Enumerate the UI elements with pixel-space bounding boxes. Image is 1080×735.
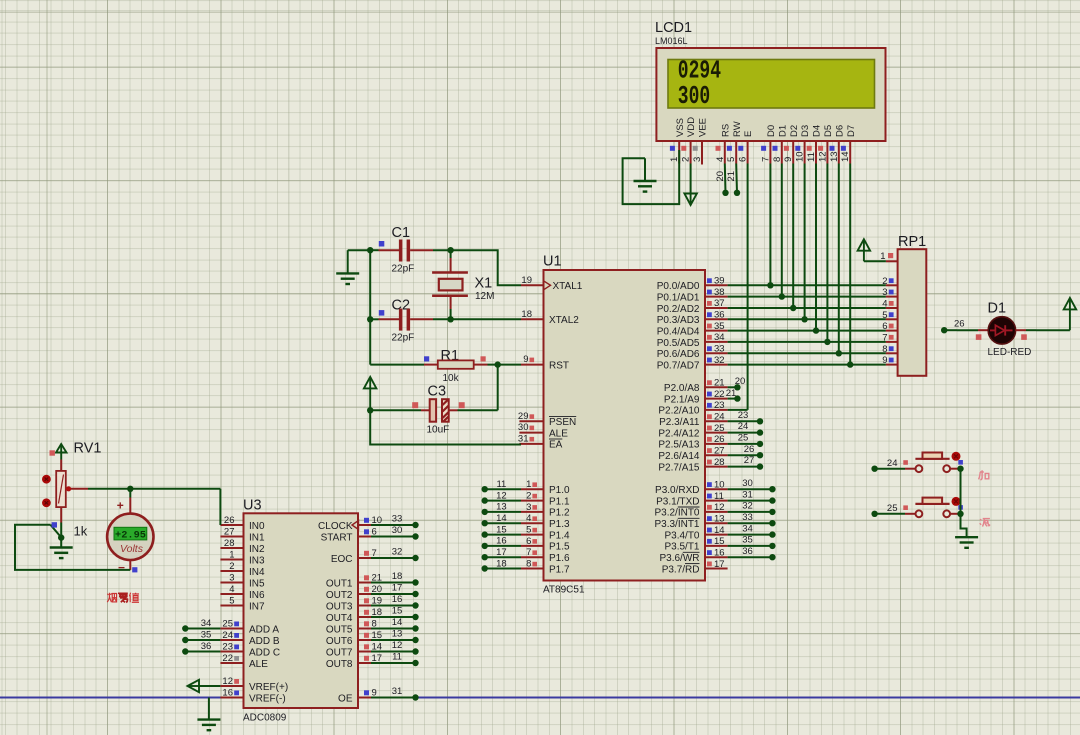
svg-text:22: 22: [714, 389, 725, 400]
svg-text:3: 3: [882, 287, 887, 298]
svg-text:U1: U1: [543, 254, 562, 270]
U3 pin 16 VREF(-): [220, 697, 243, 699]
U3 pin 7 EOC wire to node 32: [358, 557, 371, 559]
svg-text:15: 15: [714, 536, 725, 547]
U1 pin 15 P3.5 stub: [705, 545, 728, 547]
wire to voltmeter plus: [129, 489, 131, 498]
U1 pin 21 P2.0/A8 stub: [705, 386, 728, 388]
U1 pin 24 P2.3/A11 stub: [705, 420, 728, 422]
svg-text:X1: X1: [475, 275, 493, 291]
pot bottom terminal and ground: [60, 507, 62, 522]
svg-text:18: 18: [392, 571, 403, 582]
svg-text:ADD C: ADD C: [249, 647, 280, 658]
svg-text:28: 28: [714, 457, 725, 468]
label jian (subtract) chinese: [980, 519, 990, 527]
ADC U3 ADC0809 body: [244, 513, 359, 708]
wire ADD A to node 34: [185, 628, 220, 630]
svg-text:14: 14: [840, 151, 851, 162]
wire P2.0 to node 20: [728, 386, 738, 388]
svg-text:34: 34: [714, 332, 725, 343]
svg-text:EOC: EOC: [331, 554, 353, 565]
wire pot bottom loop to voltmeter minus: [15, 525, 130, 570]
svg-text:12: 12: [222, 676, 233, 687]
ground net wire (blue) full width: [0, 697, 1080, 699]
svg-text:22: 22: [222, 653, 233, 664]
svg-text:D7: D7: [846, 125, 857, 137]
svg-text:26: 26: [744, 444, 755, 455]
LCD VSS wire to ground: [623, 150, 680, 204]
svg-text:11: 11: [496, 479, 506, 490]
U3 pin 9 OE wire to node 31: [358, 697, 371, 699]
svg-text:D1: D1: [777, 125, 788, 137]
svg-text:RW: RW: [732, 121, 743, 137]
svg-text:P1.0: P1.0: [549, 485, 570, 496]
svg-text:C3: C3: [428, 384, 447, 400]
svg-text:35: 35: [742, 535, 753, 546]
svg-text:22pF: 22pF: [392, 333, 415, 344]
svg-text:D6: D6: [834, 125, 845, 137]
svg-text:21: 21: [714, 378, 725, 389]
svg-text:13: 13: [392, 629, 403, 640]
crystal X1: [450, 250, 452, 258]
svg-text:25: 25: [222, 619, 233, 630]
svg-text:1: 1: [229, 550, 234, 561]
svg-text:LED-RED: LED-RED: [988, 347, 1032, 358]
svg-text:IN6: IN6: [249, 590, 265, 601]
U1 pin 9 RST stub: [521, 364, 544, 366]
U3 pin 25 ADD A: [220, 628, 243, 630]
svg-text:16: 16: [496, 536, 507, 547]
U3 pin 20 OUT2 wire to node 17: [358, 593, 371, 595]
wire D1 to VCC arrow: [1016, 329, 1026, 331]
svg-text:IN2: IN2: [249, 544, 265, 555]
wire P2.2 to LCD E: [728, 409, 748, 411]
wire crystal top to XTAL1: [447, 247, 453, 253]
svg-text:11: 11: [714, 491, 724, 502]
svg-text:ADD A: ADD A: [249, 624, 279, 635]
svg-text:30: 30: [742, 478, 753, 489]
svg-text:15: 15: [496, 524, 507, 535]
svg-text:VREF(-): VREF(-): [249, 693, 286, 704]
svg-text:P3.5/T1: P3.5/T1: [664, 542, 699, 553]
U1 pin 12 P3.2 stub: [705, 511, 728, 513]
svg-text:IN4: IN4: [249, 567, 265, 578]
svg-text:START: START: [321, 532, 353, 543]
svg-text:P1.1: P1.1: [549, 496, 570, 507]
svg-text:23: 23: [714, 400, 725, 411]
svg-text:3: 3: [229, 573, 234, 584]
svg-text:4: 4: [526, 513, 531, 524]
svg-text:17: 17: [392, 583, 403, 594]
svg-text:ALE: ALE: [249, 659, 268, 670]
svg-text:18: 18: [496, 558, 507, 569]
voltmeter: [107, 514, 153, 560]
svg-text:XTAL1: XTAL1: [553, 281, 583, 292]
svg-text:PSEN: PSEN: [549, 417, 576, 428]
U1 pin 38 P0.1/AD1 stub: [705, 296, 728, 298]
U1 pin 33 P0.6/AD6 stub: [705, 352, 728, 354]
LCD pin stubs with numbers: [678, 141, 680, 164]
svg-text:39: 39: [714, 276, 725, 287]
svg-text:4: 4: [882, 299, 887, 310]
svg-text:VEE: VEE: [698, 118, 709, 137]
svg-text:26: 26: [954, 319, 965, 330]
svg-text:P1.2: P1.2: [549, 508, 570, 519]
svg-text:ADC0809: ADC0809: [243, 713, 287, 724]
svg-text:36: 36: [201, 641, 212, 652]
svg-text:12: 12: [496, 490, 507, 501]
svg-text:28: 28: [224, 538, 235, 549]
U1 pin 3 P1.2 stub and wire to node 13: [485, 511, 521, 513]
U3 pin 24 ADD B: [220, 639, 243, 641]
svg-text:IN3: IN3: [249, 555, 265, 566]
svg-text:+2.95: +2.95: [115, 529, 146, 541]
node wire vertical C1/C2/R1 left rail: [369, 250, 371, 364]
svg-text:8: 8: [882, 344, 887, 355]
svg-text:21: 21: [726, 171, 737, 182]
svg-text:P3.2/INT0: P3.2/INT0: [654, 508, 699, 519]
svg-text:33: 33: [714, 344, 725, 355]
svg-text:29: 29: [518, 411, 529, 422]
svg-text:P0.6/AD6: P0.6/AD6: [657, 349, 700, 360]
svg-text:30: 30: [392, 525, 403, 536]
svg-text:P0.2/AD2: P0.2/AD2: [657, 304, 700, 315]
svg-text:VSS: VSS: [675, 118, 686, 137]
svg-text:AT89C51: AT89C51: [543, 585, 585, 596]
svg-text:1k: 1k: [74, 524, 88, 539]
wires P2.3-P2.7 to nodes 23-27: [728, 420, 760, 422]
U1 pin 37 P0.2/AD2 stub: [705, 307, 728, 309]
svg-text:5: 5: [726, 157, 737, 162]
svg-text:VREF(+): VREF(+): [249, 682, 288, 693]
svg-text:17: 17: [714, 559, 725, 570]
U3 pin 8 OUT5 wire to node 14: [358, 628, 371, 630]
P0 bus wires from U1 to RP1: [728, 284, 886, 286]
U1 pin 29 PSEN stub: [519, 420, 543, 422]
svg-text:RP1: RP1: [898, 234, 926, 250]
svg-text:P3.6/WR: P3.6/WR: [659, 553, 699, 564]
svg-text:D3: D3: [800, 125, 811, 137]
svg-text:RV1: RV1: [74, 441, 102, 457]
U3 pin 21 OUT1 wire to node 18: [358, 582, 371, 584]
U1 pin 11 P3.1 stub: [705, 500, 728, 502]
svg-text:34: 34: [201, 618, 212, 629]
svg-text:EA: EA: [549, 440, 563, 451]
ground below U3: [208, 698, 210, 720]
microcontroller U1 AT89C51 body: [544, 270, 706, 581]
svg-text:20: 20: [735, 376, 746, 387]
wire RST node down to C3: [497, 365, 499, 411]
svg-text:33: 33: [742, 512, 753, 523]
svg-text:IN7: IN7: [249, 601, 265, 612]
svg-text:LCD1: LCD1: [655, 20, 692, 36]
svg-text:18: 18: [521, 309, 532, 320]
LCD VDD wire to power-down arrow: [690, 164, 692, 194]
svg-text:9: 9: [523, 354, 528, 365]
svg-text:27: 27: [714, 445, 725, 456]
svg-text:P2.7/A15: P2.7/A15: [658, 462, 700, 473]
svg-text:+: +: [117, 499, 124, 513]
svg-text:10k: 10k: [443, 373, 460, 384]
svg-text:35: 35: [201, 629, 212, 640]
svg-text:2: 2: [526, 491, 531, 502]
svg-text:33: 33: [392, 514, 403, 525]
svg-text:P1.6: P1.6: [549, 553, 570, 564]
svg-text:P3.4/T0: P3.4/T0: [664, 530, 699, 541]
svg-text:13: 13: [496, 502, 507, 513]
svg-text:D1: D1: [988, 301, 1007, 317]
svg-text:P2.4/A12: P2.4/A12: [658, 428, 700, 439]
U1 pin 5 P1.4 stub and wire to node 15: [485, 534, 521, 536]
LCD E wire down to P2.2: [747, 164, 749, 410]
LCD LM016L body: [656, 48, 885, 141]
svg-text:P3.7/RD: P3.7/RD: [662, 564, 700, 575]
svg-text:RS: RS: [720, 124, 731, 137]
svg-text:22pF: 22pF: [392, 264, 415, 275]
svg-text:P0.1/AD1: P0.1/AD1: [657, 292, 700, 303]
svg-text:35: 35: [714, 321, 725, 332]
svg-text:37: 37: [714, 298, 725, 309]
U1 pin 25 P2.4/A12 stub: [705, 432, 728, 434]
svg-text:D4: D4: [812, 125, 823, 137]
svg-text:CLOCK: CLOCK: [318, 521, 353, 532]
U1 pin 14 P3.4 stub: [705, 534, 728, 536]
svg-text:P3.3/INT1: P3.3/INT1: [654, 519, 699, 530]
svg-text:U3: U3: [243, 498, 262, 514]
svg-text:P0.4/AD4: P0.4/AD4: [657, 326, 700, 337]
U1 pin 2 P1.1 stub and wire to node 12: [485, 500, 521, 502]
U1 pin 32 P0.7/AD7 stub: [705, 364, 728, 366]
LCD RW wire to node 21: [735, 164, 738, 193]
svg-text:OUT7: OUT7: [326, 647, 353, 658]
svg-text:6: 6: [738, 157, 749, 162]
U1 pin 18 XTAL2 stub: [521, 318, 544, 320]
svg-text:27: 27: [224, 527, 235, 538]
svg-text:32: 32: [392, 547, 403, 558]
U1 pin 30 ALE stub: [519, 432, 543, 434]
svg-text:23: 23: [738, 410, 749, 421]
U1 pin 16 P3.6 stub: [705, 556, 728, 558]
svg-text:P2.1/A9: P2.1/A9: [664, 394, 700, 405]
svg-text:16: 16: [392, 594, 403, 605]
power arrow VCC above C3: [364, 377, 377, 389]
svg-text:24: 24: [222, 630, 233, 641]
U1 pin 13 P3.3 stub: [705, 522, 728, 524]
svg-text:7: 7: [882, 332, 887, 343]
U1 pin 36 P0.3/AD3 stub: [705, 318, 728, 320]
U1 pin 10 P3.0 stub: [705, 488, 728, 490]
svg-text:20: 20: [715, 171, 726, 182]
U1 pin 26 P2.5/A13 stub: [705, 443, 728, 445]
wire RV1 wiper to ADC IN0: [71, 488, 88, 490]
svg-text:25: 25: [714, 423, 725, 434]
label jia (add) chinese: [979, 470, 989, 480]
svg-text:31: 31: [518, 433, 529, 444]
svg-text:34: 34: [742, 523, 753, 534]
svg-text:E: E: [743, 131, 754, 137]
wire between buttons and to ground: [960, 469, 962, 514]
svg-text:13: 13: [829, 151, 840, 162]
wire P2.1 to node 21: [728, 398, 738, 400]
U3 pin 14 OUT7 wire to node 12: [358, 651, 371, 653]
svg-text:17: 17: [496, 547, 507, 558]
svg-text:3: 3: [526, 502, 531, 513]
wire ADD C to node 36: [185, 651, 220, 653]
LCD screen: [668, 60, 875, 109]
svg-text:7: 7: [526, 547, 531, 558]
U1 pin 28 P2.7/A15 stub: [705, 466, 728, 468]
svg-text:D2: D2: [789, 125, 800, 137]
svg-text:RST: RST: [549, 360, 569, 371]
U3 pin 18 OUT4 wire to node 15: [358, 616, 371, 618]
svg-text:6: 6: [882, 321, 887, 332]
wire ADD B to node 35: [185, 639, 220, 641]
svg-text:P3.0/RXD: P3.0/RXD: [655, 485, 699, 496]
svg-text:12: 12: [392, 640, 403, 651]
svg-text:IN0: IN0: [249, 521, 265, 532]
svg-text:P3.1/TXD: P3.1/TXD: [656, 496, 699, 507]
wire C2 to XTAL2: [451, 318, 521, 320]
svg-text:12: 12: [817, 151, 828, 162]
svg-text:D5: D5: [823, 125, 834, 137]
U1 pin 17 P3.7 stub: [705, 568, 728, 570]
svg-text:12M: 12M: [475, 291, 494, 302]
U3 pin 15 OUT6 wire to node 13: [358, 639, 371, 641]
svg-text:IN1: IN1: [249, 532, 265, 543]
U1 pin 8 P1.7 stub and wire to node 18: [485, 568, 521, 570]
svg-text:26: 26: [224, 515, 235, 526]
svg-text:C1: C1: [392, 225, 411, 241]
U3 pin 10 CLOCK wire to node 33: [358, 524, 371, 526]
svg-text:5: 5: [229, 596, 234, 607]
svg-text:5: 5: [882, 310, 887, 321]
U3 CLOCK input arrow: [352, 521, 359, 530]
svg-text:19: 19: [521, 275, 532, 286]
U3 pin 22 ALE: [220, 662, 243, 664]
svg-text:P2.3/A11: P2.3/A11: [659, 417, 700, 428]
svg-text:P1.7: P1.7: [549, 564, 570, 575]
svg-text:Volts: Volts: [120, 543, 144, 555]
svg-text:P2.0/A8: P2.0/A8: [664, 383, 700, 394]
svg-text:D0: D0: [766, 125, 777, 137]
svg-text:XTAL2: XTAL2: [549, 315, 579, 326]
svg-text:4: 4: [715, 157, 726, 162]
svg-text:31: 31: [392, 686, 403, 697]
svg-text:38: 38: [714, 287, 725, 298]
svg-text:VDD: VDD: [686, 117, 697, 137]
svg-text:P0.5/AD5: P0.5/AD5: [657, 338, 700, 349]
svg-text:P1.4: P1.4: [549, 530, 570, 541]
svg-text:16: 16: [714, 547, 725, 558]
svg-text:300: 300: [678, 82, 710, 111]
U1 pin 7 P1.6 stub and wire to node 17: [485, 556, 521, 558]
svg-text:15: 15: [392, 606, 403, 617]
svg-text:1: 1: [526, 479, 531, 490]
U1 pin 34 P0.5/AD5 stub: [705, 341, 728, 343]
svg-text:OUT6: OUT6: [326, 636, 353, 647]
U1 pin 19 XTAL1 stub: [521, 284, 544, 286]
U1 pin 22 P2.1/A9 stub: [705, 398, 728, 400]
svg-text:LM016L: LM016L: [655, 36, 688, 46]
svg-text:11: 11: [806, 152, 817, 162]
wire VCC node to EA: [370, 410, 521, 444]
U1 pin 35 P0.4/AD4 stub: [705, 330, 728, 332]
svg-text:7: 7: [760, 157, 771, 162]
U1 pin 4 P1.3 stub and wire to node 14: [485, 522, 521, 524]
svg-text:24: 24: [887, 458, 898, 469]
svg-text:16: 16: [222, 688, 233, 699]
resistor pack RP1 body: [898, 249, 927, 376]
svg-text:OUT2: OUT2: [326, 590, 353, 601]
U1 pin 27 P2.6/A14 stub: [705, 454, 728, 456]
svg-text:24: 24: [738, 421, 749, 432]
svg-text:2: 2: [681, 157, 692, 162]
U3 pin 12 VREF(+) with power arrow: [220, 685, 243, 687]
svg-text:32: 32: [742, 501, 753, 512]
RP1 pins 2-9 stubs: [886, 284, 898, 286]
svg-text:IN5: IN5: [249, 578, 265, 589]
U3 pin 6 START wire to node 30: [358, 536, 371, 538]
U3 IN0-IN7 pins: [220, 524, 243, 526]
svg-text:8: 8: [772, 157, 783, 162]
ground for C1/C2: [348, 249, 371, 251]
U1 pin 6 P1.5 stub and wire to node 16: [485, 545, 521, 547]
svg-text:13: 13: [714, 513, 725, 524]
svg-text:OUT1: OUT1: [326, 578, 353, 589]
svg-text:−: −: [118, 561, 125, 575]
svg-text:36: 36: [714, 310, 725, 321]
U1 pin 1 P1.0 stub and wire to node 11: [485, 488, 521, 490]
svg-text:OUT3: OUT3: [326, 601, 353, 612]
svg-text:P0.3/AD3: P0.3/AD3: [657, 315, 700, 326]
svg-text:11: 11: [392, 652, 402, 663]
LCD RS wire to node 20: [724, 164, 727, 193]
svg-text:10uF: 10uF: [427, 425, 450, 436]
svg-text:24: 24: [714, 412, 725, 423]
U1 pin 23 P2.2/A10 stub: [705, 409, 728, 411]
svg-text:12: 12: [714, 502, 725, 513]
node 26 wire to D1: [941, 327, 947, 333]
label smoke value chinese: [107, 593, 116, 602]
LCD VEE stub end: [701, 141, 703, 165]
RV1 wiper arrow: [66, 486, 71, 491]
svg-text:31: 31: [742, 489, 753, 500]
svg-text:6: 6: [526, 536, 531, 547]
svg-text:9: 9: [882, 355, 887, 366]
svg-text:OE: OE: [338, 693, 353, 704]
svg-text:14: 14: [496, 513, 507, 524]
svg-text:P1.3: P1.3: [549, 519, 570, 530]
U3 pin 17 OUT8 wire to node 11: [358, 662, 371, 664]
svg-text:2: 2: [229, 561, 234, 572]
svg-text:36: 36: [742, 546, 753, 557]
wires P3.0-P3.6 to nodes 30-36: [728, 488, 773, 490]
svg-text:23: 23: [222, 642, 233, 653]
svg-text:8: 8: [526, 559, 531, 570]
svg-text:5: 5: [526, 525, 531, 536]
voltmeter minus terminal: [129, 560, 131, 570]
push button (node 24): [871, 466, 877, 472]
push button (node 25): [871, 511, 877, 517]
svg-text:P2.5/A13: P2.5/A13: [658, 440, 700, 451]
svg-text:P2.6/A14: P2.6/A14: [658, 451, 700, 462]
LCD data wires D0-D7 to P0 bus: [769, 164, 771, 286]
svg-text:9: 9: [783, 157, 794, 162]
svg-text:2: 2: [882, 276, 887, 287]
svg-text:P2.2/A10: P2.2/A10: [658, 406, 700, 417]
RP1 pin 1 stub and wire to VCC arrow: [886, 260, 898, 262]
svg-text:32: 32: [714, 355, 725, 366]
